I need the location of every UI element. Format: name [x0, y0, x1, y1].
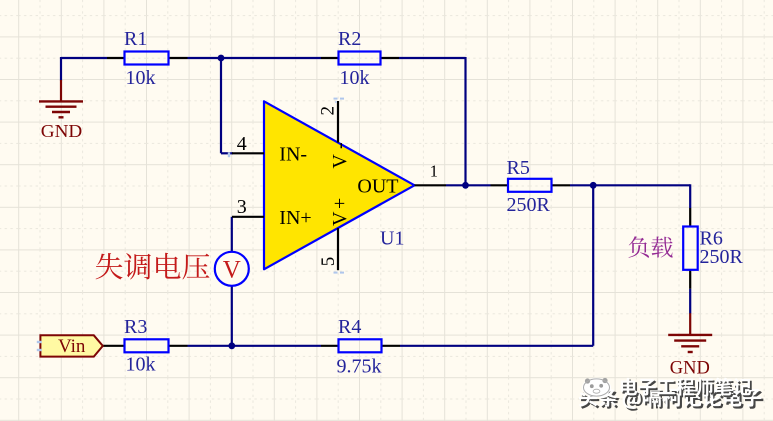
- svg-text:R3: R3: [124, 316, 147, 338]
- pin 2 (V-): [337, 101, 339, 143]
- artifact mark near pin 4 corner: [228, 152, 230, 157]
- wire top-left from GND riser to R1: [61, 57, 107, 59]
- wire left GND riser: [60, 57, 62, 81]
- wire R4 right to corner below R5 node: [400, 345, 593, 347]
- port Vin: [40, 335, 102, 356]
- wire feedback vertical down to output node: [464, 57, 466, 185]
- svg-text:250R: 250R: [700, 246, 744, 268]
- resistor R2: [321, 57, 339, 59]
- wire R3 to R4 (through node B): [188, 345, 322, 347]
- resistor R6 (load): [689, 208, 691, 227]
- svg-text:V: V: [223, 257, 241, 284]
- svg-text:U1: U1: [380, 228, 404, 250]
- artifact marks near pin 2 top: [334, 98, 345, 103]
- watermark panda icon: [582, 378, 611, 398]
- wire V source bottom down to bottom net: [231, 286, 233, 346]
- svg-text:Vin: Vin: [58, 336, 86, 357]
- artifact marks near pin 5 bottom: [334, 272, 345, 274]
- resistor R5: [491, 184, 509, 186]
- svg-text:10k: 10k: [126, 67, 156, 89]
- resistor R1: [107, 57, 125, 59]
- ground GND right: [689, 313, 691, 334]
- wire pin 3 down to V source top: [231, 217, 233, 252]
- pin 4 (IN-): [232, 152, 264, 154]
- op-amp U1: [264, 101, 415, 269]
- svg-text:OUT: OUT: [357, 175, 398, 197]
- svg-text:9.75k: 9.75k: [337, 356, 382, 378]
- wire R1 to R2 (through node A): [188, 57, 322, 59]
- wire node A down to pin 4: [220, 58, 222, 153]
- watermark line1 电子工程师笔记 (shadow then white): [623, 380, 639, 398]
- pin 3 (IN+): [232, 216, 264, 218]
- svg-text:R4: R4: [338, 316, 361, 338]
- resistor R3: [103, 345, 125, 347]
- pin 1 (OUT): [415, 184, 447, 186]
- svg-text:1: 1: [430, 162, 438, 181]
- svg-text:10k: 10k: [126, 354, 156, 376]
- svg-text:R1: R1: [124, 28, 147, 50]
- wire corner down to R6 top: [689, 184, 691, 208]
- svg-text:10k: 10k: [340, 67, 370, 89]
- svg-text:2: 2: [318, 106, 339, 116]
- wire R5 to load corner: [570, 184, 690, 186]
- watermark line2 头条@... (shadow then white): [581, 390, 600, 409]
- svg-text:GND: GND: [41, 121, 83, 141]
- svg-text:GND: GND: [670, 358, 710, 379]
- voltage source V (offset voltage): [215, 252, 249, 286]
- svg-text:R5: R5: [507, 157, 530, 179]
- svg-text:3: 3: [237, 196, 247, 218]
- svg-text:V-: V-: [329, 135, 351, 168]
- junction R5/load node: [590, 182, 597, 189]
- junction node B (R3/R4/V source): [228, 342, 235, 349]
- ground GND left: [60, 80, 62, 101]
- svg-text:4: 4: [237, 133, 247, 155]
- wire R2 right to feedback corner: [399, 57, 466, 59]
- wire op-amp output to R5: [446, 184, 491, 186]
- wire R6 bottom to right GND: [689, 289, 691, 314]
- svg-text:R2: R2: [338, 28, 361, 50]
- svg-text:IN-: IN-: [279, 144, 307, 166]
- svg-text:IN+: IN+: [279, 207, 311, 229]
- svg-text:5: 5: [318, 257, 339, 267]
- label 失调电压 (offset voltage): [96, 253, 123, 279]
- pin 5 (V+): [337, 228, 339, 270]
- label 负载 (load): [629, 236, 650, 257]
- svg-text:V+: V+: [329, 195, 351, 226]
- resistor R4: [321, 345, 339, 347]
- junction output node (pin1/feedback/R5): [462, 182, 469, 189]
- svg-text:250R: 250R: [507, 194, 551, 216]
- artifact marks at Vin left edge: [37, 341, 42, 351]
- wire vertical from bottom net up to R5 output node: [592, 185, 594, 345]
- junction node A (R1/R2/IN-): [218, 55, 225, 62]
